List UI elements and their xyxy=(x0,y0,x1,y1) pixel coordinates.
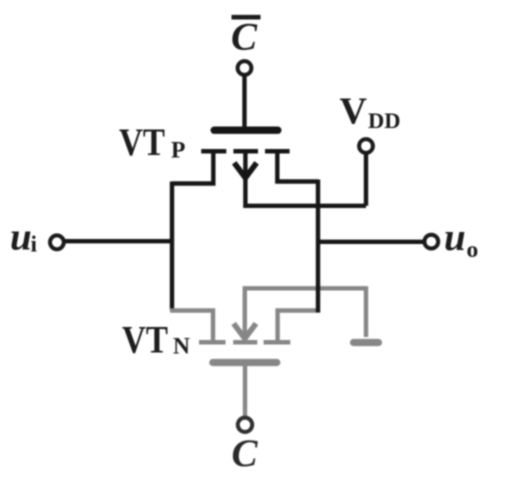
transistor VT P channel segment left (source) xyxy=(201,149,226,154)
wire u_i terminal to left rail xyxy=(64,239,174,243)
wire VT P source tap to left rail xyxy=(172,151,213,183)
wire ground branch vertical xyxy=(364,286,368,337)
transistor VT P channel segment right (drain) xyxy=(265,149,290,154)
wire VT N gate to C terminal xyxy=(243,363,247,417)
svg-text:N: N xyxy=(173,334,190,360)
wire V_DD terminal down to bulk wire xyxy=(364,153,368,206)
svg-text:VT: VT xyxy=(122,319,168,362)
transistor VT P bulk arrow head (pointing down) xyxy=(234,163,256,178)
svg-text:u: u xyxy=(444,216,466,259)
wire C-bar terminal to VT P gate xyxy=(242,75,246,128)
terminal circle C-bar xyxy=(238,61,252,75)
transistor VT N bulk arrow head (pointing down) xyxy=(234,324,256,339)
terminal circle C xyxy=(238,418,252,432)
svg-text:o: o xyxy=(467,237,479,263)
wire NMOS source tap from left rail (gray) xyxy=(170,311,213,343)
svg-text:P: P xyxy=(171,138,185,164)
transistor VT P gate bar xyxy=(214,126,278,133)
svg-text:u: u xyxy=(10,215,32,258)
terminal circle V_DD xyxy=(359,139,373,153)
svg-text:C: C xyxy=(232,432,259,475)
wire VT P drain tap to right rail xyxy=(277,151,318,181)
ground (substrate) bar symbol xyxy=(354,339,379,346)
wire right rail (u_o node vertical) xyxy=(316,180,320,313)
transistor VT N gate bar xyxy=(213,359,277,366)
wire right rail to u_o terminal xyxy=(318,240,424,244)
wire NMOS drain tap to right rail (gray) xyxy=(278,311,320,343)
svg-text:C: C xyxy=(231,16,258,59)
wire VT P bulk stem down and right to VDD xyxy=(245,151,366,206)
svg-text:V: V xyxy=(340,91,368,133)
transistor VT N channel segment right (drain) xyxy=(264,340,291,345)
terminal circle u_i xyxy=(50,235,64,249)
svg-text:VT: VT xyxy=(119,121,165,164)
wire VT N bulk stem from ground wire down to channel xyxy=(245,288,366,336)
terminal circle u_o xyxy=(424,235,438,249)
transistor VT P channel segment middle (bulk) xyxy=(233,149,258,154)
svg-text:i: i xyxy=(31,232,38,258)
svg-text:DD: DD xyxy=(368,108,401,133)
transistor VT N channel segment middle (bulk) xyxy=(233,340,257,345)
transistor VT N channel segment left (source) xyxy=(199,340,226,345)
wire left rail (u_i node vertical) xyxy=(170,182,174,311)
node C-bar label (overbar) xyxy=(232,15,261,20)
